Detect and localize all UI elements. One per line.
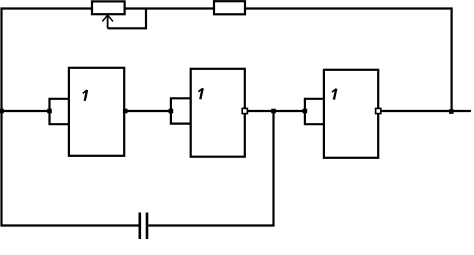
wire gate D1.1 output to gate D1.2 input: [124, 110, 171, 112]
capacitor C1: [140, 213, 147, 240]
logic gate D1.2 (inverter, IEC "1"): [191, 69, 245, 157]
label "1" of gate D1.1: [83, 90, 87, 101]
logic gate D1.3 (inverter, IEC "1"): [324, 70, 378, 158]
logic gate D1.1 (inverter, IEC "1"): [69, 68, 124, 156]
junction at gate D1.1 output pin: [123, 109, 128, 114]
wire gate D1.3 output to right terminal: [380, 110, 471, 112]
potentiometer R1 (rheostat with wiper feedback): [92, 1, 146, 28]
inversion bubble at gate D1.3 output: [376, 108, 381, 113]
tied inputs of gate D1.3: [305, 99, 324, 124]
junction at gate D1.1 tied inputs: [47, 109, 52, 114]
output terminal junction with feedback drop: [449, 109, 454, 114]
junction at gate D1.2 tied inputs: [169, 109, 174, 114]
wire bottom rail right of capacitor and riser to node B: [148, 111, 273, 226]
resistor R2: [214, 1, 245, 14]
junction at gate D1.3 tied inputs: [303, 109, 308, 114]
inversion bubble at gate D1.2 output: [242, 108, 247, 113]
label "1" of gate D1.3: [332, 89, 336, 100]
tied inputs of gate D1.2: [171, 98, 191, 123]
junction on left rail at gate D1.1 input: [0, 109, 4, 114]
node B junction of riser with gate D1.3 input wire: [271, 109, 276, 114]
tied inputs of gate D1.1: [50, 99, 69, 124]
label "1" of gate D1.2: [198, 88, 202, 99]
wire gate D1.2 output to gate D1.3 input: [246, 110, 305, 112]
wire input of gate D1.1: [2, 110, 50, 112]
